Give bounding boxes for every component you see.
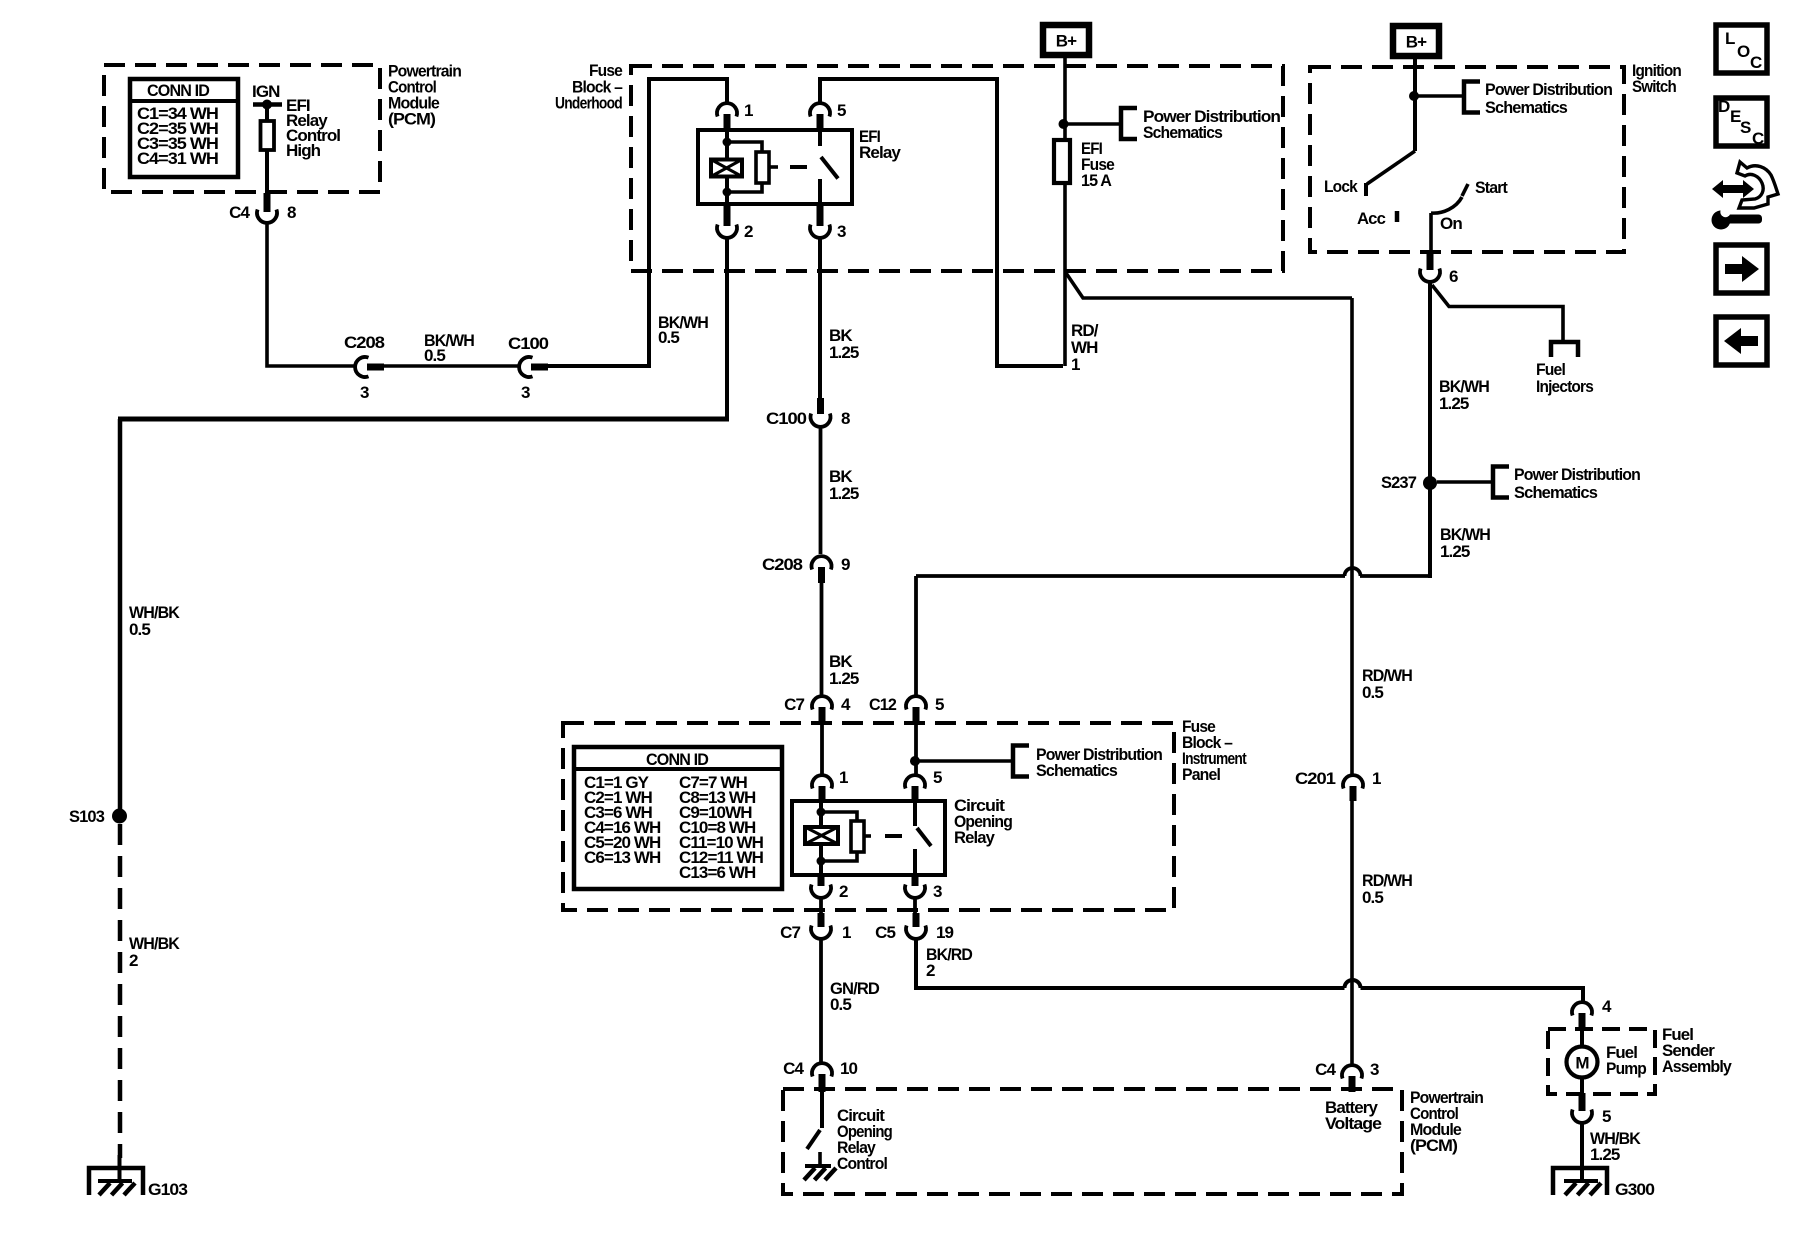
Start position label	[1475, 178, 1508, 197]
connector circuit opening relay pin 5	[905, 768, 942, 802]
svg-text:Schematics: Schematics	[1514, 483, 1597, 502]
connector C4 pin 10	[783, 1059, 857, 1092]
svg-text:1.25: 1.25	[829, 484, 859, 503]
splice S237	[1381, 473, 1437, 492]
Battery Voltage label	[1325, 1098, 1381, 1133]
wire label WH/BK 2 (left)	[129, 934, 181, 970]
wire down left side to S103	[118, 419, 123, 810]
wire C7-1 down to C4-10 (GN/RD)	[819, 940, 823, 1063]
svg-text:1: 1	[1372, 769, 1381, 788]
svg-text:C4: C4	[229, 203, 250, 222]
svg-text:M: M	[1575, 1054, 1589, 1073]
EFI relay switch	[820, 130, 838, 204]
wire EFI relay pin 5 up right and down to fuse output	[820, 79, 1063, 366]
wire On position to pin 6	[1429, 213, 1433, 254]
wire junction to power distribution bracket	[1063, 122, 1121, 126]
svg-text:C6=13 WH: C6=13 WH	[584, 848, 661, 867]
svg-text:0.5: 0.5	[658, 328, 679, 347]
svg-text:0.5: 0.5	[424, 346, 445, 365]
resistor EFI Relay Control High (in PCM)	[261, 121, 275, 150]
connector C208 pin 3 (horizontal)	[344, 333, 384, 402]
svg-text:IGN: IGN	[252, 82, 280, 101]
wire S237 to power distribution bracket	[1437, 480, 1493, 484]
connector C5 pin 19	[875, 913, 953, 942]
power distribution schematics label (IP)	[1036, 745, 1162, 780]
connector C201 pin 1	[1295, 769, 1381, 801]
wire label BK/WH 0.5 (pin1 wire)	[658, 313, 709, 347]
connector circuit opening relay pin 2	[811, 875, 848, 901]
wire branch to fuel injectors	[1432, 285, 1563, 340]
wire C7-4 into relay pin 1	[820, 724, 824, 774]
wire B+ into ignition switch	[1409, 58, 1419, 151]
svg-text:C5: C5	[875, 923, 895, 942]
wire pin 6 down to S237	[1428, 283, 1432, 578]
svg-text:B+: B+	[1056, 32, 1077, 51]
svg-text:D: D	[1718, 97, 1730, 116]
svg-text:C4: C4	[1315, 1060, 1336, 1079]
wire IGN to EFI relay control resistor	[265, 105, 269, 122]
wire C208 to C100	[384, 364, 518, 368]
svg-text:Start: Start	[1475, 178, 1508, 197]
EFI relay actuator dashed link	[769, 165, 807, 169]
connector circuit opening relay pin 1	[812, 768, 848, 802]
svg-text:(PCM): (PCM)	[1410, 1136, 1457, 1155]
EFI Relay label	[859, 127, 901, 162]
connector C4 pin 3 (battery voltage)	[1315, 1060, 1379, 1092]
EFI Relay Control High label	[286, 96, 340, 160]
svg-text:C208: C208	[762, 555, 802, 574]
svg-text:Lock: Lock	[1324, 177, 1358, 196]
Fuel Pump label	[1606, 1043, 1646, 1078]
wire label WH/BK 1.25	[1590, 1129, 1642, 1164]
On position label	[1440, 214, 1462, 233]
wire relay pin 2 to C7-1	[819, 899, 823, 915]
svg-text:S103: S103	[69, 807, 104, 826]
wire EFI fuse down to relay pin5 feed	[1063, 183, 1067, 366]
ignition switch dashed box	[1310, 67, 1624, 252]
wire C12-5 into relay pin 5	[914, 724, 918, 774]
connector C4 pin 8 (PCM output)	[229, 193, 296, 223]
svg-text:10: 10	[840, 1059, 858, 1078]
connector EFI relay pin 2	[717, 204, 753, 241]
icon back arrow box	[1716, 317, 1767, 365]
svg-text:2: 2	[926, 961, 935, 980]
ignition switch label	[1632, 61, 1681, 96]
wire EFI relay pin 2 down to ground run	[725, 239, 729, 419]
svg-text:C4: C4	[783, 1059, 804, 1078]
svg-text:C12: C12	[869, 695, 896, 714]
circuit opening relay control switch (in PCM)	[807, 1092, 822, 1149]
svg-text:Schematics: Schematics	[1036, 761, 1117, 780]
wire B+ to EFI fuse	[1059, 58, 1069, 140]
wire S237 left to C12-5 (with hop)	[916, 568, 1430, 695]
Circuit Opening Relay label	[954, 796, 1012, 847]
bracket power distribution schematics (fuse)	[1121, 108, 1137, 139]
Circuit Opening Relay Control label	[837, 1106, 892, 1173]
wire label BK 1.25 (above C100-8)	[829, 326, 859, 362]
svg-text:C4=31 WH: C4=31 WH	[137, 149, 219, 168]
svg-text:2: 2	[839, 882, 848, 901]
power distribution schematics label (fuse)	[1143, 107, 1281, 142]
svg-text:B+: B+	[1406, 33, 1427, 52]
svg-text:1: 1	[839, 768, 848, 787]
wire label BK/WH 1.25 (above S237)	[1439, 377, 1490, 413]
wire label BK 1.25 (above C7-4)	[829, 652, 859, 688]
svg-text:G103: G103	[148, 1180, 187, 1199]
svg-text:Injectors: Injectors	[1536, 377, 1593, 396]
Start position tick	[1462, 184, 1468, 196]
bracket power distribution schematics (ignition)	[1464, 82, 1480, 113]
circuit opening relay coil	[805, 802, 864, 876]
power distribution schematics label (S237)	[1514, 465, 1640, 502]
circuit opening relay box	[792, 801, 945, 875]
svg-text:Underhood: Underhood	[555, 94, 622, 113]
wire resistor to C4 pin 8	[265, 150, 269, 196]
svg-text:4: 4	[1602, 997, 1612, 1016]
connector fuel pump pin 5	[1572, 1093, 1611, 1126]
wire RD/WH branch from fuse (diagonal exit)	[1066, 273, 1352, 298]
svg-text:O: O	[1737, 42, 1750, 61]
svg-text:Pump: Pump	[1606, 1059, 1646, 1078]
svg-text:3: 3	[360, 383, 369, 402]
svg-text:CONN ID: CONN ID	[147, 81, 210, 100]
svg-text:6: 6	[1449, 267, 1458, 286]
svg-text:2: 2	[129, 951, 138, 970]
connector C100 pin 8	[766, 398, 850, 428]
svg-text:C100: C100	[508, 334, 548, 353]
fuse block underhood label	[555, 61, 622, 113]
connector C12 pin 5	[869, 695, 944, 724]
connector EFI relay pin 5	[810, 101, 846, 132]
svg-text:Voltage: Voltage	[1325, 1114, 1381, 1133]
fuel injectors label	[1536, 360, 1593, 396]
svg-text:4: 4	[841, 695, 851, 714]
wire C100-8 to C208-9	[819, 428, 823, 554]
svg-text:0.5: 0.5	[1362, 888, 1383, 907]
wire label RD/WH 0.5 (above C201)	[1362, 666, 1413, 702]
EFI relay box	[698, 130, 852, 204]
svg-text:9: 9	[841, 555, 850, 574]
svg-text:Assembly: Assembly	[1662, 1057, 1732, 1076]
wire EFI relay pin 3 down to C100-8	[818, 239, 822, 400]
wire RD/WH down to C201	[1350, 298, 1354, 774]
svg-text:1.25: 1.25	[1590, 1145, 1620, 1164]
icon schematic navigation (arrows and wrench)	[1712, 162, 1779, 230]
fuse block instrument panel dashed box	[563, 723, 1174, 910]
svg-text:2: 2	[744, 222, 753, 241]
svg-text:19: 19	[936, 923, 954, 942]
svg-text:C100: C100	[766, 409, 806, 428]
fuse block underhood dashed box	[631, 66, 1283, 271]
svg-text:15 A: 15 A	[1081, 171, 1112, 190]
svg-text:1.25: 1.25	[829, 669, 859, 688]
connector C208 pin 9	[762, 555, 850, 583]
PCM bottom label	[1410, 1088, 1483, 1155]
svg-text:1.25: 1.25	[1440, 542, 1470, 561]
EFI fuse label	[1081, 139, 1114, 190]
On position arc	[1431, 197, 1462, 213]
Acc position tick	[1395, 211, 1400, 222]
icon DESC box	[1716, 97, 1767, 148]
ground G300	[1553, 1168, 1654, 1199]
fuel pump motor	[1567, 1047, 1598, 1078]
svg-text:Schematics: Schematics	[1143, 123, 1222, 142]
circuit opening relay actuator dashed link	[864, 834, 902, 838]
powertrain control module PCM (top-left) dashed box	[104, 65, 380, 192]
EFI relay coil	[711, 131, 769, 205]
wire C208-9 to C7-4	[820, 583, 824, 695]
wire label RD/WH 1	[1071, 321, 1099, 374]
splice S103	[69, 807, 127, 826]
svg-text:8: 8	[841, 409, 850, 428]
wire C5-19 to fuel pump (BK/RD with hop)	[916, 940, 1583, 1002]
wire label RD/WH 0.5 (below C201)	[1362, 871, 1413, 907]
wire C100-3 right, up into fuse block to EFI relay pin 1	[548, 79, 727, 366]
svg-text:Relay: Relay	[859, 143, 901, 162]
svg-text:On: On	[1440, 214, 1462, 233]
svg-text:Relay: Relay	[954, 828, 995, 847]
connector C7 pin 1	[780, 913, 851, 942]
fuel injectors symbol	[1551, 342, 1578, 357]
svg-text:Power Distribution: Power Distribution	[1485, 80, 1612, 99]
ground inside PCM	[804, 1152, 836, 1180]
svg-text:3: 3	[933, 882, 942, 901]
wire S103 to G103 dashed	[118, 824, 123, 1158]
svg-text:S: S	[1740, 118, 1751, 137]
wire label WH/BK 0.5 (left)	[129, 603, 181, 639]
svg-text:(PCM): (PCM)	[388, 110, 435, 129]
svg-text:3: 3	[521, 383, 530, 402]
wire C4-8 down and right to C208	[267, 224, 354, 366]
svg-text:0.5: 0.5	[830, 995, 851, 1014]
svg-text:0.5: 0.5	[1362, 683, 1383, 702]
svg-text:3: 3	[837, 222, 846, 241]
CONN ID table (PCM C1-C4)	[130, 79, 238, 177]
svg-text:1.25: 1.25	[1439, 394, 1469, 413]
connector ignition pin 6	[1420, 251, 1458, 286]
svg-text:Panel: Panel	[1182, 765, 1220, 784]
fuel sender assembly dashed box	[1548, 1029, 1655, 1094]
svg-text:Power Distribution: Power Distribution	[1514, 465, 1640, 484]
ignition switch lever to Lock	[1366, 151, 1415, 196]
icon LOC box	[1716, 25, 1767, 73]
svg-text:Switch: Switch	[1632, 77, 1676, 96]
IGN terminal bar	[253, 100, 282, 110]
bracket power distribution schematics (S237)	[1493, 467, 1509, 498]
svg-text:8: 8	[287, 203, 296, 222]
powertrain control module PCM (bottom) dashed box	[783, 1089, 1402, 1194]
connector C100 pin 3 (horizontal)	[508, 334, 548, 402]
svg-text:1: 1	[744, 101, 753, 120]
wire to power distribution bracket (ignition)	[1414, 94, 1464, 98]
svg-text:C7: C7	[784, 695, 804, 714]
icon next arrow box	[1716, 245, 1767, 293]
wire fuel pump motor to pin 5	[1580, 1078, 1584, 1095]
fuse EFI Fuse 15A	[1054, 140, 1070, 183]
svg-text:Control: Control	[837, 1154, 887, 1173]
wire fuel pump to G300	[1580, 1124, 1584, 1181]
junction to power distribution (IP)	[910, 756, 1013, 766]
wire pin2 long run left (to S103 branch)	[118, 417, 729, 422]
svg-text:C: C	[1750, 53, 1762, 72]
ground G103	[89, 1155, 187, 1199]
wire relay pin 3 to C5-19	[913, 899, 917, 915]
wire label BK/WH 0.5 (C208-C100)	[424, 331, 475, 365]
wire label BK/WH 1.25 (below S237)	[1440, 525, 1491, 561]
svg-text:5: 5	[837, 101, 846, 120]
power distribution schematics label (ignition)	[1485, 80, 1612, 117]
svg-text:C201: C201	[1295, 769, 1335, 788]
connector C7 pin 4	[784, 695, 851, 724]
svg-text:5: 5	[935, 695, 944, 714]
connector EFI relay pin 1	[717, 101, 753, 132]
svg-text:5: 5	[933, 768, 942, 787]
svg-text:L: L	[1725, 29, 1735, 48]
svg-text:5: 5	[1602, 1107, 1611, 1126]
connector EFI relay pin 3	[810, 204, 846, 241]
circuit opening relay switch	[915, 801, 931, 875]
connector circuit opening relay pin 3	[905, 875, 942, 901]
IGN node label	[252, 82, 280, 101]
svg-text:Acc: Acc	[1357, 209, 1385, 228]
svg-text:S237: S237	[1381, 473, 1416, 492]
svg-text:1: 1	[1071, 355, 1080, 374]
CONN ID table (IP fuse block)	[574, 747, 782, 889]
Lock position label	[1324, 177, 1358, 196]
wire pin 4 to fuel pump motor	[1580, 1030, 1584, 1047]
wire label BK 1.25 (above C208-9)	[829, 467, 859, 503]
wire label GN/RD 0.5	[830, 979, 880, 1014]
svg-text:C13=6 WH: C13=6 WH	[679, 863, 756, 882]
svg-text:1.25: 1.25	[829, 343, 859, 362]
B+ power tap (fuse block)	[1043, 25, 1089, 55]
PCM label text	[388, 62, 461, 129]
connector fuel pump pin 4	[1572, 997, 1612, 1030]
svg-text:G300: G300	[1615, 1180, 1654, 1199]
svg-text:1: 1	[842, 923, 851, 942]
bracket power distribution schematics (IP)	[1013, 746, 1029, 777]
svg-text:0.5: 0.5	[129, 620, 150, 639]
Acc position label	[1357, 209, 1385, 228]
svg-text:Schematics: Schematics	[1485, 98, 1567, 117]
svg-text:C7: C7	[780, 923, 800, 942]
svg-text:CONN ID: CONN ID	[646, 750, 709, 769]
svg-text:3: 3	[1370, 1060, 1379, 1079]
svg-text:C: C	[1752, 129, 1764, 148]
svg-text:C208: C208	[344, 333, 384, 352]
wire label BK/RD 2	[926, 945, 973, 980]
wire C201 to C4-3	[1350, 801, 1354, 1064]
svg-text:High: High	[286, 141, 321, 160]
fuse block instrument panel label	[1182, 717, 1247, 784]
B+ power tap (ignition)	[1393, 26, 1439, 56]
fuel sender assembly label	[1662, 1025, 1732, 1076]
